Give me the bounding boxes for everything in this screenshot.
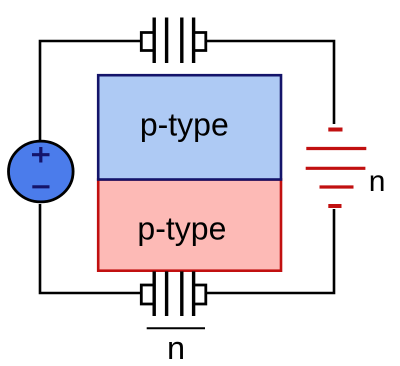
battery B-right long plate 2 — [306, 167, 366, 170]
svg-text:p-type: p-type — [140, 106, 229, 142]
battery B-right long plate 1 — [306, 147, 366, 150]
capacitor C-top plates — [154, 18, 193, 64]
wire top-left corner segment — [40, 41, 141, 140]
capacitor C-top left bracket — [141, 33, 153, 51]
battery B-right medium plate — [320, 185, 354, 188]
capacitor C-bottom right bracket — [194, 285, 206, 304]
wire top-right corner segment — [206, 41, 335, 124]
capacitor C-top right bracket — [194, 33, 206, 51]
voltage source V1 plus sign — [32, 147, 50, 163]
svg-text:n: n — [167, 330, 185, 366]
n-bar overline under C-bottom — [147, 327, 205, 329]
battery B-right terminal cap bottom (red) — [328, 204, 341, 208]
svg-text:p-type: p-type — [137, 210, 226, 246]
svg-text:n: n — [369, 165, 386, 198]
p-type region bottom (pink) — [98, 180, 281, 271]
voltage source V1 circle — [9, 141, 74, 202]
voltage source V1 minus sign — [32, 185, 49, 188]
battery B-right terminal cap top (red) — [328, 128, 342, 132]
p-type region top (blue) — [98, 75, 281, 179]
wire bottom-right corner segment — [205, 209, 334, 293]
capacitor C-bottom left bracket — [141, 285, 153, 304]
wire bottom-left corner segment — [40, 204, 142, 293]
capacitor C-bottom plates — [154, 271, 193, 316]
